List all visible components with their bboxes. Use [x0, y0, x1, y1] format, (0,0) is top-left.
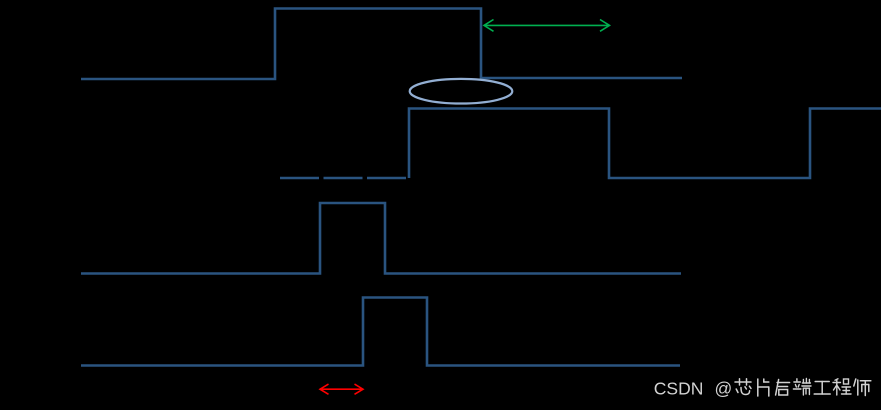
waveform W4 (bottom signal pulse) [81, 298, 680, 366]
watermark CJK glyph 芯 [735, 379, 751, 395]
dimension arrow D1 (green, uncertainty span) [484, 20, 610, 32]
ellipse highlight (metastability region) [410, 79, 513, 104]
svg-text:CSDN: CSDN [654, 379, 704, 399]
watermark CJK glyph 师 [854, 379, 871, 396]
svg-text:@: @ [715, 379, 733, 399]
watermark CJK glyph 片 [758, 379, 769, 396]
watermark CJK glyph 程 [833, 379, 851, 395]
watermark CJK glyph 端 [793, 379, 811, 396]
waveform W1 (top signal pulse) [81, 9, 682, 80]
watermark CJK glyph 后 [776, 380, 790, 396]
waveform W2 dashed low segment [280, 177, 408, 180]
dimension arrow D2 (red, delay span) [320, 384, 363, 394]
waveform W2 (second signal, solid) [409, 109, 881, 179]
watermark CJK glyph 工 [814, 382, 830, 395]
waveform W3 (third signal pulse) [81, 203, 681, 274]
